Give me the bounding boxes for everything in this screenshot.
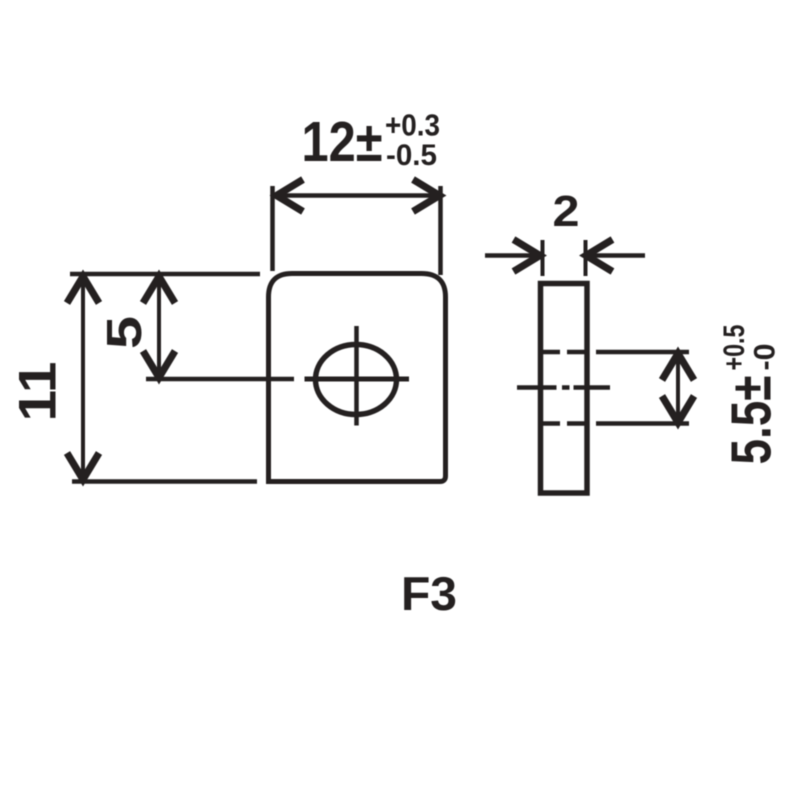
arrowhead 11 top xyxy=(67,277,99,304)
svg-text:5.5±: 5.5± xyxy=(720,376,784,465)
arrowhead 5.5 top xyxy=(662,354,694,381)
arrowhead 12 right xyxy=(413,180,440,212)
arrowhead 5.5 bottom xyxy=(662,396,694,423)
hole horizontal centerline xyxy=(305,377,410,382)
front view body outline xyxy=(269,274,446,482)
side view lower hidden dashed line xyxy=(541,421,590,426)
svg-text:-0: -0 xyxy=(749,344,782,371)
svg-text:5: 5 xyxy=(98,316,152,349)
side view center dash-dot line xyxy=(517,385,610,390)
side view lower extension line xyxy=(596,421,689,426)
bottom extension line xyxy=(72,479,257,484)
top extension line xyxy=(70,272,260,277)
side view upper hidden dashed line xyxy=(541,350,590,355)
svg-text:+0.3: +0.3 xyxy=(385,109,440,143)
centerline extension to 5 dimension xyxy=(146,377,294,382)
svg-text:2: 2 xyxy=(553,187,580,236)
svg-text:F3: F3 xyxy=(401,567,457,620)
arrowhead 2 left xyxy=(514,240,541,272)
side view upper extension line xyxy=(596,350,689,355)
dimension leader 2 right xyxy=(589,253,645,258)
extension line 12 right xyxy=(438,186,443,275)
extension line 12 left xyxy=(270,186,275,271)
dimension line 5.5 xyxy=(676,356,680,420)
arrowhead 5 top xyxy=(143,277,175,304)
extension tick 2 left xyxy=(541,240,545,276)
hole vertical centerline xyxy=(354,326,359,426)
svg-text:+0.5: +0.5 xyxy=(718,325,751,371)
arrowhead 5 bottom xyxy=(143,351,175,378)
svg-text:11: 11 xyxy=(9,362,68,422)
dimension line 11 xyxy=(81,278,85,478)
arrowhead 11 bottom xyxy=(67,453,99,480)
arrowhead 2 right xyxy=(586,240,613,272)
dimension leader 2 left xyxy=(485,253,537,258)
arrowhead 12 left xyxy=(277,180,304,212)
dimension line 5 xyxy=(157,278,161,376)
dimension line 12 xyxy=(278,193,438,198)
label 5.5 with tolerance xyxy=(718,325,784,465)
svg-text:-0.5: -0.5 xyxy=(386,139,437,172)
side view rectangle xyxy=(541,284,588,494)
extension tick 2 right xyxy=(584,240,588,276)
hole circle xyxy=(316,345,397,415)
svg-text:12±: 12± xyxy=(302,110,383,174)
